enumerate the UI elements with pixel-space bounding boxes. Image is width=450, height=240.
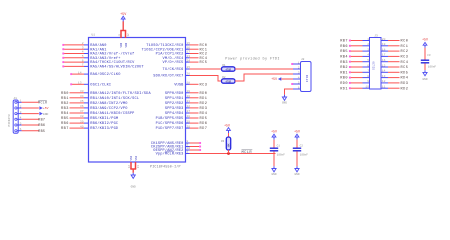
svg-text:RD2: RD2 <box>401 87 409 91</box>
svg-text:39: 39 <box>80 120 84 123</box>
svg-text:RB2: RB2 <box>340 66 348 70</box>
svg-text:U1: U1 <box>92 34 96 37</box>
svg-text:RD5: RD5 <box>401 71 409 75</box>
svg-text:RD2: RD2 <box>200 102 208 106</box>
pin 15 net RC0 wire+label <box>186 44 190 46</box>
J3 pin 14 net RD5 <box>381 71 388 73</box>
svg-text:4: 4 <box>82 51 84 54</box>
svg-text:4: 4 <box>20 117 22 120</box>
svg-text:100nF: 100nF <box>428 65 436 68</box>
pin 27 net RD4 wire+label <box>186 112 190 114</box>
J1 pin 2 <box>15 107 17 109</box>
svg-text:17: 17 <box>187 51 191 54</box>
svg-text:RA0/AN0: RA0/AN0 <box>90 43 106 48</box>
wire +5V to C2 <box>296 140 298 148</box>
wire U1.1 MCLR to pull-up junction and label <box>186 153 190 155</box>
svg-text:23: 23 <box>187 55 191 58</box>
svg-text:RA3/AN3/Vref+: RA3/AN3/Vref+ <box>90 56 120 61</box>
svg-text:22: 22 <box>187 105 191 108</box>
svg-text:2: 2 <box>82 42 84 45</box>
pin 19 net RD0 wire+label <box>186 92 190 94</box>
svg-text:2: 2 <box>20 105 22 108</box>
pin 17 net RC2 wire+label <box>186 53 190 55</box>
wire J1.6 to RB5 <box>22 130 39 132</box>
svg-text:PICKIT3: PICKIT3 <box>8 114 11 126</box>
wire U1.25 (TX) to R1 <box>186 68 190 70</box>
pin 3 RA1 wire+pad <box>62 48 64 50</box>
svg-text:VDD: VDD <box>120 42 123 47</box>
svg-text:RD4: RD4 <box>401 77 409 81</box>
pin 16 net RC1 wire+label <box>186 48 190 50</box>
svg-text:RB2: RB2 <box>61 102 69 106</box>
svg-text:RB6: RB6 <box>61 122 69 126</box>
svg-text:13: 13 <box>78 82 82 85</box>
svg-text:19: 19 <box>382 43 386 46</box>
svg-text:+5V: +5V <box>294 129 300 133</box>
J3 pin 19 net RC1 <box>381 45 388 47</box>
J1 pin 1 <box>15 101 17 103</box>
svg-text:RC5: RC5 <box>200 61 208 65</box>
pin 20 net RD1 wire+label <box>186 97 190 99</box>
svg-text:31: 31 <box>137 165 140 169</box>
svg-text:RB5: RB5 <box>61 117 69 121</box>
svg-text:1: 1 <box>20 100 22 103</box>
pin 4 RA2 wire+pad <box>62 53 64 55</box>
J2 pin 2 stub <box>293 68 301 70</box>
svg-text:14: 14 <box>382 70 386 73</box>
svg-text:+5V: +5V <box>271 129 277 133</box>
svg-text:470R: 470R <box>225 68 231 71</box>
svg-text:RB0: RB0 <box>61 92 69 96</box>
wire J1.1 to MCLR <box>22 101 39 103</box>
svg-text:19: 19 <box>187 90 191 93</box>
svg-text:RB5/KBI1/PGM: RB5/KBI1/PGM <box>90 116 118 121</box>
svg-text:12: 12 <box>382 80 386 83</box>
J1 pin 5 <box>15 124 17 126</box>
pin 13 OSC1 wire+pad <box>70 83 72 85</box>
svg-text:J1: J1 <box>13 97 17 100</box>
svg-text:29: 29 <box>187 120 191 123</box>
svg-text:C2: C2 <box>300 145 304 148</box>
connector J2 FTDI body <box>301 62 312 92</box>
svg-text:RD1: RD1 <box>340 87 348 91</box>
capacitor C3 100nF <box>421 59 429 61</box>
svg-text:RC5: RC5 <box>401 66 409 70</box>
svg-text:15: 15 <box>187 42 191 45</box>
svg-text:6: 6 <box>367 64 369 67</box>
svg-text:+5V: +5V <box>224 124 230 128</box>
ground symbol below C2 <box>296 166 298 168</box>
svg-text:RB4: RB4 <box>61 112 69 116</box>
J2 pin5 pad <box>291 83 293 85</box>
svg-text:RA5/AN4/SS/HLVDIN/C2OUT: RA5/AN4/SS/HLVDIN/C2OUT <box>90 65 144 70</box>
svg-text:RB1: RB1 <box>340 71 348 75</box>
resistor R2 470R <box>222 79 236 83</box>
wire J1.3 to GND <box>22 113 39 115</box>
svg-text:6: 6 <box>20 128 22 131</box>
svg-text:11: 11 <box>118 33 121 37</box>
svg-text:RB1: RB1 <box>61 97 69 101</box>
svg-text:RB0/AN12/INT0/FLT0/SDI/SDA: RB0/AN12/INT0/FLT0/SDI/SDA <box>90 91 151 96</box>
svg-text:27: 27 <box>187 110 191 113</box>
J2 pin1 pad <box>291 63 293 65</box>
svg-text:RC2: RC2 <box>401 50 409 54</box>
svg-text:7: 7 <box>367 70 369 73</box>
pin 6 RA4 wire+pad <box>62 61 64 63</box>
svg-text:P1C/SPP6/RD6: P1C/SPP6/RD6 <box>156 121 184 126</box>
J2 pin 3 stub <box>293 73 301 75</box>
svg-text:16: 16 <box>187 46 191 49</box>
wire +5V to C3 <box>424 48 426 60</box>
J2 pin 6 stub <box>293 88 301 90</box>
svg-text:SPP4/RD4: SPP4/RD4 <box>165 111 184 116</box>
svg-text:SPP0/RD0: SPP0/RD0 <box>165 91 184 96</box>
svg-text:2: 2 <box>367 43 369 46</box>
svg-text:VP/D+/RC5: VP/D+/RC5 <box>163 60 184 65</box>
svg-text:RB7/KBI3/PGD: RB7/KBI3/PGD <box>90 126 118 131</box>
svg-text:4: 4 <box>298 76 300 79</box>
pin 29 net RD6 wire+label <box>186 122 190 124</box>
svg-text:RB7: RB7 <box>61 127 69 131</box>
svg-text:SPP2/RD2: SPP2/RD2 <box>165 101 184 106</box>
J1 pin 3 <box>15 113 17 115</box>
ground symbol below C1 <box>273 166 275 168</box>
J3 pin 15 net RC5 <box>381 66 388 68</box>
svg-text:VM/D-/RC4: VM/D-/RC4 <box>163 56 184 61</box>
wire J1.5 to RB6 <box>22 124 39 126</box>
svg-text:+5V: +5V <box>271 77 277 81</box>
wire R1 to J2 pin2 <box>235 68 293 70</box>
svg-text:36: 36 <box>80 105 84 108</box>
resistor R3 10K vertical <box>226 137 230 150</box>
svg-text:VSS: VSS <box>130 155 133 160</box>
pin 23 net RC4 wire+label <box>186 57 190 59</box>
svg-text:28: 28 <box>187 115 191 118</box>
svg-text:RB2/AN8/INT2/VMO: RB2/AN8/INT2/VMO <box>90 101 127 106</box>
svg-text:4: 4 <box>367 54 369 57</box>
svg-text:5: 5 <box>82 55 84 58</box>
svg-text:3: 3 <box>367 48 369 51</box>
svg-text:GND: GND <box>282 102 287 105</box>
J2 pin 1 stub <box>293 63 301 65</box>
svg-text:32: 32 <box>127 33 130 37</box>
svg-text:C1: C1 <box>277 145 281 148</box>
svg-text:Vpp/MCLR/RE3: Vpp/MCLR/RE3 <box>156 152 184 157</box>
svg-text:RD0: RD0 <box>200 92 208 96</box>
svg-text:10K: 10K <box>228 143 231 148</box>
svg-text:RC3: RC3 <box>200 83 208 87</box>
svg-text:RB3/AN9/CCP2/VPO: RB3/AN9/CCP2/VPO <box>90 106 127 111</box>
pin 24 net RC5 wire+label <box>186 61 190 63</box>
pin 18 VUSB wire + net RC3 <box>186 83 190 85</box>
svg-text:RC3: RC3 <box>401 56 409 60</box>
pin 7 RA5 wire+pad <box>62 65 64 67</box>
svg-text:FTDI: FTDI <box>305 74 309 82</box>
svg-text:R2: R2 <box>222 76 226 79</box>
svg-text:SPP1/RD1: SPP1/RD1 <box>165 96 184 101</box>
J3 pin 16 net RC4 <box>381 61 388 63</box>
ground symbol at J2 <box>284 95 286 97</box>
pin 14 RA6/OSC2 wire+pad <box>70 73 72 75</box>
junction dot MCLR net <box>227 152 230 155</box>
svg-text:24: 24 <box>187 59 191 62</box>
VDD pins 11,32 + wire to +5V <box>120 31 122 39</box>
svg-text:12: 12 <box>128 165 131 169</box>
svg-text:17: 17 <box>382 54 386 57</box>
svg-text:PIC18F4550-I/P: PIC18F4550-I/P <box>150 164 181 168</box>
svg-text:SIL20: SIL20 <box>372 61 375 70</box>
svg-text:GND: GND <box>271 173 276 176</box>
svg-text:SDO/RX/DT/RC7: SDO/RX/DT/RC7 <box>153 74 183 79</box>
svg-text:5: 5 <box>298 81 300 84</box>
svg-text:J2: J2 <box>301 58 305 61</box>
svg-text:35: 35 <box>80 100 84 103</box>
svg-text:RC4: RC4 <box>401 61 409 65</box>
svg-text:RB0: RB0 <box>340 77 348 81</box>
svg-text:38: 38 <box>80 115 84 118</box>
wire C3 to GND <box>424 63 426 70</box>
svg-text:5: 5 <box>367 59 369 62</box>
J3 pin 20 net RC0 <box>381 40 388 42</box>
svg-text:18: 18 <box>382 48 386 51</box>
wire R3 to junction <box>228 150 230 154</box>
svg-text:14: 14 <box>78 71 82 74</box>
J3 pin 13 net RD4 <box>381 77 388 79</box>
pin 2 RA0 wire+pad <box>62 44 64 46</box>
mcu U1 PIC18F4550 body <box>89 38 186 163</box>
wire +5V to C1 <box>273 140 275 148</box>
wire J2 pin6 to GND <box>285 89 294 95</box>
VSS pins 12,31 + wire to GND <box>130 162 132 169</box>
J3 pin 18 net RC2 <box>381 50 388 52</box>
J3 pin 17 net RC3 <box>381 55 388 57</box>
svg-text:21: 21 <box>187 100 191 103</box>
svg-text:J3: J3 <box>374 34 378 37</box>
svg-text:RB6: RB6 <box>38 124 45 128</box>
svg-text:RD1: RD1 <box>200 97 208 101</box>
J2 pin 4 stub <box>293 78 301 80</box>
svg-text:OSC1/CLKI: OSC1/CLKI <box>90 82 111 87</box>
svg-text:P1A/CCP1/RC2: P1A/CCP1/RC2 <box>156 52 184 57</box>
J3 pin 12 net RD3 <box>381 82 388 84</box>
svg-text:RB4/AN11/KBI0/CSSPP: RB4/AN11/KBI0/CSSPP <box>90 111 134 116</box>
svg-text:40: 40 <box>80 125 84 128</box>
svg-text:9: 9 <box>367 80 369 83</box>
svg-text:P1D/SPP7/RD7: P1D/SPP7/RD7 <box>156 126 184 131</box>
svg-text:RD0: RD0 <box>340 82 348 86</box>
svg-text:RB3: RB3 <box>61 107 69 111</box>
pin 5 RA3 wire+pad <box>62 57 64 59</box>
svg-text:RD3: RD3 <box>401 82 409 86</box>
J1 pin 6 <box>15 130 17 132</box>
svg-text:100nF: 100nF <box>300 153 308 156</box>
svg-text:5: 5 <box>20 122 22 125</box>
svg-text:2: 2 <box>298 66 300 69</box>
svg-text:37: 37 <box>80 110 84 113</box>
svg-text:30: 30 <box>187 125 191 128</box>
svg-text:R1: R1 <box>222 64 226 67</box>
svg-text:8: 8 <box>367 75 369 78</box>
pin 8 RE0 stub+pad <box>186 142 190 144</box>
svg-text:RA2/AN2/Vref-/CVref: RA2/AN2/Vref-/CVref <box>90 52 134 57</box>
svg-text:SPP3/RD3: SPP3/RD3 <box>165 106 184 111</box>
svg-text:3: 3 <box>298 71 300 74</box>
svg-text:1: 1 <box>298 61 300 64</box>
resistor R1 470R <box>222 67 236 71</box>
svg-text:34: 34 <box>80 95 84 98</box>
svg-text:1: 1 <box>367 38 369 41</box>
connector J3 SIL20 body <box>370 38 382 90</box>
wire C2 to GND <box>296 151 298 166</box>
pin 30 net RD7 wire+label <box>186 127 190 129</box>
J2 pin 5 stub <box>293 83 301 85</box>
svg-text:RC1: RC1 <box>401 45 409 49</box>
svg-text:+5V: +5V <box>43 106 49 110</box>
svg-text:GND: GND <box>422 78 427 81</box>
svg-text:18: 18 <box>187 82 191 85</box>
svg-text:R3: R3 <box>221 140 225 143</box>
svg-text:470R: 470R <box>225 80 231 83</box>
svg-text:VDD: VDD <box>125 42 128 47</box>
svg-text:3: 3 <box>82 46 84 49</box>
svg-text:C3: C3 <box>427 54 431 57</box>
svg-text:16: 16 <box>382 59 386 62</box>
svg-text:RB3: RB3 <box>340 61 348 65</box>
wire C1 to GND <box>273 151 275 166</box>
svg-text:6: 6 <box>298 86 300 89</box>
pin 22 net RD3 wire+label <box>186 107 190 109</box>
svg-text:MCLR: MCLR <box>38 101 47 105</box>
J1 pin 4 <box>15 118 17 120</box>
svg-text:20: 20 <box>187 95 191 98</box>
svg-text:RB1/AN10/INT1/SCK/SCL: RB1/AN10/INT1/SCK/SCL <box>90 96 139 101</box>
svg-text:RD5: RD5 <box>200 117 208 121</box>
svg-text:RB7: RB7 <box>38 119 45 123</box>
svg-text:RB7: RB7 <box>340 40 348 44</box>
svg-text:GND: GND <box>43 113 49 116</box>
svg-text:RA1/AN1: RA1/AN1 <box>90 47 106 52</box>
svg-text:15: 15 <box>382 64 386 67</box>
ground symbol below C3 <box>424 70 426 72</box>
svg-text:RD7: RD7 <box>200 127 208 131</box>
svg-text:13: 13 <box>382 75 386 78</box>
svg-text:33: 33 <box>80 90 84 93</box>
svg-text:T1OSO/T13CKI/RC0: T1OSO/T13CKI/RC0 <box>146 43 183 48</box>
svg-text:RA4/T0CKI/C1OUT/RCV: RA4/T0CKI/C1OUT/RCV <box>90 60 135 65</box>
J3 pin 11 net RD2 <box>381 87 388 89</box>
svg-text:100nF: 100nF <box>277 153 285 156</box>
wire U1.26 (RX) to R2 <box>186 75 190 77</box>
svg-text:RD6: RD6 <box>200 122 208 126</box>
svg-text:GND: GND <box>131 185 136 188</box>
connector J1 PICKIT3 body <box>13 100 18 133</box>
svg-text:RA6/OSC2/CLKO: RA6/OSC2/CLKO <box>90 72 120 77</box>
svg-text:VSS: VSS <box>135 155 138 160</box>
capacitor C1 100nF <box>270 147 278 149</box>
pin 28 net RD5 wire+label <box>186 117 190 119</box>
svg-text:RB4: RB4 <box>340 56 348 60</box>
wire J1.2 to +5V <box>22 107 39 109</box>
pin 21 net RD2 wire+label <box>186 102 190 104</box>
svg-text:T1OSI/CCP2/UOE/RC1: T1OSI/CCP2/UOE/RC1 <box>142 47 184 52</box>
svg-text:Power provided by FTDI: Power provided by FTDI <box>225 57 280 62</box>
svg-text:+5V: +5V <box>422 38 428 42</box>
svg-text:3: 3 <box>20 111 22 114</box>
svg-text:TX/CK/RC6: TX/CK/RC6 <box>163 67 184 72</box>
pin 9 RE1 stub+pad <box>186 146 190 148</box>
svg-text:RD4: RD4 <box>200 112 208 116</box>
svg-text:10: 10 <box>365 86 369 89</box>
svg-text:RC0: RC0 <box>401 40 409 44</box>
wire J1.4 to RB7 <box>22 118 39 120</box>
pin 10 RE2 stub+pad <box>186 149 190 151</box>
svg-text:20: 20 <box>382 38 386 41</box>
svg-text:RD3: RD3 <box>200 107 208 111</box>
svg-text:RB6/KBI2/PGC: RB6/KBI2/PGC <box>90 121 118 126</box>
svg-text:GND: GND <box>294 173 299 176</box>
svg-text:P1B/SPP5/RD5: P1B/SPP5/RD5 <box>156 116 184 121</box>
svg-text:RB6: RB6 <box>340 45 348 49</box>
svg-text:RB5: RB5 <box>38 130 45 134</box>
svg-text:MCLR: MCLR <box>242 151 253 155</box>
svg-text:VUSB: VUSB <box>174 83 184 87</box>
svg-text:6: 6 <box>82 59 84 62</box>
svg-text:11: 11 <box>382 86 386 89</box>
wire +5V to R3 <box>228 133 230 137</box>
svg-text:7: 7 <box>82 64 84 67</box>
ground symbol below U1 <box>132 173 134 175</box>
capacitor C2 100nF <box>293 147 301 149</box>
wire R2 to J2 pin3 <box>235 74 293 81</box>
svg-text:RB5: RB5 <box>340 50 348 54</box>
